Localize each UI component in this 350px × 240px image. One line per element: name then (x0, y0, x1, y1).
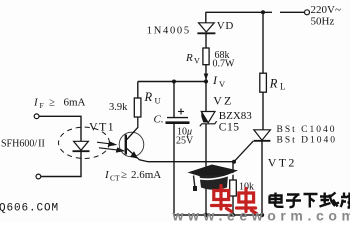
svg-text:VT1: VT1 (89, 120, 115, 134)
svg-text:0.7W: 0.7W (213, 59, 236, 70)
wire horizontal node row (138, 81, 206, 83)
wire zener bottom lead (205, 124, 207, 215)
svg-text:BZX83: BZX83 (219, 110, 253, 122)
node gate junction (232, 160, 236, 164)
svg-text:25V: 25V (176, 136, 194, 147)
capacitor C plus sign (178, 109, 184, 115)
svg-text:R: R (144, 90, 153, 104)
thyristor VT2 (254, 130, 271, 141)
svg-text:50Hz: 50Hz (311, 16, 335, 28)
svg-text:I: I (33, 97, 39, 109)
resistor RG (230, 180, 237, 196)
wire thyristor cathode (261, 141, 263, 215)
wire VD to RV (205, 33, 207, 48)
svg-text:VT2: VT2 (268, 156, 297, 170)
watermark graduation cap (188, 165, 239, 192)
svg-text:R: R (185, 52, 193, 64)
wire input top (39, 116, 81, 141)
wire RU top lead (137, 82, 139, 99)
optocoupler dashed envelope (59, 127, 110, 158)
svg-text:3.9k: 3.9k (109, 102, 128, 113)
svg-text:≥: ≥ (121, 169, 127, 181)
svg-text:C.: C. (154, 114, 164, 126)
terminal input bottom (36, 174, 41, 179)
wire capacitor top lead (173, 82, 175, 118)
watermark bug char 1 (212, 186, 232, 212)
char 子 (286, 195, 301, 208)
resistor RU (134, 98, 141, 117)
watermark bug char 2 (237, 189, 257, 214)
transistor VT1 envelope (119, 132, 144, 157)
light arrow 1 (97, 142, 116, 146)
watermark text 电子下载站 (270, 193, 350, 208)
char 载 (320, 193, 340, 207)
wire gate resistor bottom lead (232, 196, 234, 215)
transistor VT1 (126, 117, 148, 162)
node rail cathode (260, 213, 264, 217)
svg-text:www.eeworm.com: www.eeworm.com (172, 208, 350, 223)
resistor RV (203, 48, 209, 65)
wire top rail (206, 11, 305, 13)
wire gate resistor top lead (232, 162, 234, 180)
wire RV to node, current arrow IV (205, 65, 207, 82)
wire RL top lead (262, 12, 264, 73)
terminal 220V (305, 10, 310, 15)
wire capacitor bottom lead (173, 124, 175, 215)
node IV junction (204, 80, 208, 84)
diode VD (197, 23, 215, 34)
node junction top-right (261, 10, 265, 14)
svg-text:F: F (40, 101, 44, 110)
resistor RL (260, 73, 267, 92)
zener diode VZ (200, 112, 217, 127)
terminal input top (34, 114, 39, 119)
char 下 (304, 194, 318, 208)
wire thyristor gate (234, 141, 254, 162)
char 站 (341, 193, 350, 208)
svg-text:C15: C15 (219, 121, 240, 133)
svg-text:BSt D1040: BSt D1040 (277, 136, 338, 146)
svg-text:CT: CT (110, 174, 120, 183)
svg-text:V: V (194, 57, 200, 66)
capacitor C (166, 118, 190, 123)
svg-text:L: L (280, 82, 286, 92)
svg-text:220V~: 220V~ (311, 4, 341, 16)
svg-text:VD: VD (217, 20, 234, 32)
svg-text:6mA: 6mA (64, 97, 86, 109)
svg-text:2.6mA: 2.6mA (131, 169, 161, 181)
LED diode (73, 141, 90, 151)
svg-text:1N4005: 1N4005 (147, 26, 191, 37)
svg-text:BSt C1040: BSt C1040 (277, 125, 337, 135)
wire emitter row (148, 161, 234, 163)
svg-text:≥: ≥ (49, 97, 55, 109)
char 电 (270, 193, 284, 207)
svg-text:V: V (219, 79, 226, 89)
light arrow 2 (99, 148, 124, 152)
svg-text:U: U (155, 95, 161, 105)
wire input bottom (41, 151, 81, 176)
node rail resistor (231, 213, 235, 217)
wire zener top lead (205, 82, 207, 112)
node rail zener (204, 213, 208, 217)
svg-text:I: I (212, 73, 218, 87)
svg-text:R: R (269, 77, 278, 91)
svg-text:SFH600/II: SFH600/II (1, 139, 45, 150)
svg-text:Q606.COM: Q606.COM (0, 203, 59, 215)
wire RL to thyristor (262, 92, 264, 130)
svg-text:VZ: VZ (213, 94, 233, 108)
node capacitor tap (172, 80, 176, 84)
wire VD branch top (205, 12, 207, 23)
wire bottom rail (174, 214, 263, 216)
